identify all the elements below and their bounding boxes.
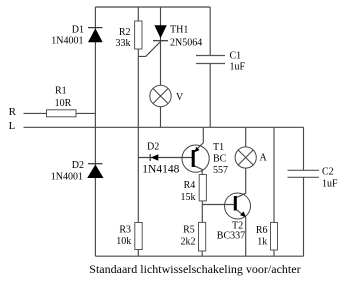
resistor R6 xyxy=(256,223,278,251)
thyristor TH1 2N5064 xyxy=(153,24,202,48)
svg-text:A: A xyxy=(260,153,268,164)
svg-text:D2: D2 xyxy=(72,160,84,171)
resistor R2 xyxy=(116,21,143,49)
wire left column through D1 and D2 xyxy=(94,7,96,256)
wire TH1 gate diagonal xyxy=(138,42,160,57)
wire T2 emitter to bottom rail xyxy=(237,210,246,257)
wire D2 1N4148 / T1 base xyxy=(138,157,192,159)
svg-text:R2: R2 xyxy=(119,27,131,38)
diode D2 1N4148 xyxy=(142,141,179,175)
wire rail R xyxy=(24,112,96,114)
svg-text:R3: R3 xyxy=(119,224,131,235)
svg-text:TH1: TH1 xyxy=(170,24,188,35)
resistor R1 xyxy=(47,85,77,117)
svg-text:R1: R1 xyxy=(55,85,67,96)
resistor R4 xyxy=(181,175,207,203)
wire T2 base xyxy=(202,204,234,206)
svg-text:2k2: 2k2 xyxy=(181,236,196,247)
svg-text:R: R xyxy=(9,106,17,118)
svg-text:R6: R6 xyxy=(256,225,268,236)
svg-text:15k: 15k xyxy=(181,192,196,203)
wire TH1 / lamp V column xyxy=(160,7,162,127)
svg-text:R4: R4 xyxy=(184,180,196,191)
svg-text:C2: C2 xyxy=(322,167,334,178)
wire T1 collector to R4 xyxy=(194,166,202,175)
wire rail L xyxy=(24,126,304,128)
transistor T2 BC337 xyxy=(217,193,251,241)
wire lamp A stub xyxy=(245,127,247,147)
lamp A xyxy=(235,147,267,168)
svg-text:557: 557 xyxy=(213,165,228,176)
svg-text:D1: D1 xyxy=(72,24,84,35)
wire R6 column xyxy=(273,127,275,256)
wire top positive rail xyxy=(95,6,210,8)
svg-text:D2: D2 xyxy=(147,141,159,152)
svg-text:C1: C1 xyxy=(230,51,242,62)
svg-text:1uF: 1uF xyxy=(230,61,246,72)
wire T2 collector to lamp A xyxy=(237,168,246,197)
svg-text:1N4001: 1N4001 xyxy=(51,171,83,182)
diode D1 1N4001 xyxy=(51,24,102,46)
wire C1 column xyxy=(209,7,211,127)
svg-text:10R: 10R xyxy=(55,98,72,109)
svg-text:L: L xyxy=(9,120,16,132)
svg-text:V: V xyxy=(176,92,184,103)
wire R2/R3 column xyxy=(137,7,139,256)
svg-text:10k: 10k xyxy=(116,236,131,247)
svg-text:T1: T1 xyxy=(213,142,224,153)
svg-text:1N4148: 1N4148 xyxy=(142,164,179,176)
capacitor C1 xyxy=(196,51,246,73)
wire R4 to R5 segment xyxy=(201,201,203,256)
svg-text:1N4001: 1N4001 xyxy=(51,35,83,46)
svg-text:Standaard lichtwisselschakelin: Standaard lichtwisselschakeling voor/ach… xyxy=(89,262,300,276)
svg-text:BC: BC xyxy=(213,153,227,164)
wire C2 column xyxy=(303,127,305,256)
svg-text:R5: R5 xyxy=(183,225,195,236)
resistor R3 xyxy=(116,223,142,250)
wire T1 emitter stub to rail L xyxy=(194,127,203,152)
diode D2 1N4001 xyxy=(51,160,104,183)
svg-text:1k: 1k xyxy=(257,237,267,248)
svg-text:1uF: 1uF xyxy=(322,178,338,189)
svg-text:BC337: BC337 xyxy=(217,230,245,241)
lamp V xyxy=(150,85,184,106)
capacitor C2 xyxy=(288,167,339,190)
svg-text:33k: 33k xyxy=(116,38,131,49)
resistor R5 xyxy=(181,222,206,251)
wire bottom rail xyxy=(95,255,303,257)
svg-text:2N5064: 2N5064 xyxy=(170,37,202,48)
transistor T1 BC557 xyxy=(182,142,228,176)
